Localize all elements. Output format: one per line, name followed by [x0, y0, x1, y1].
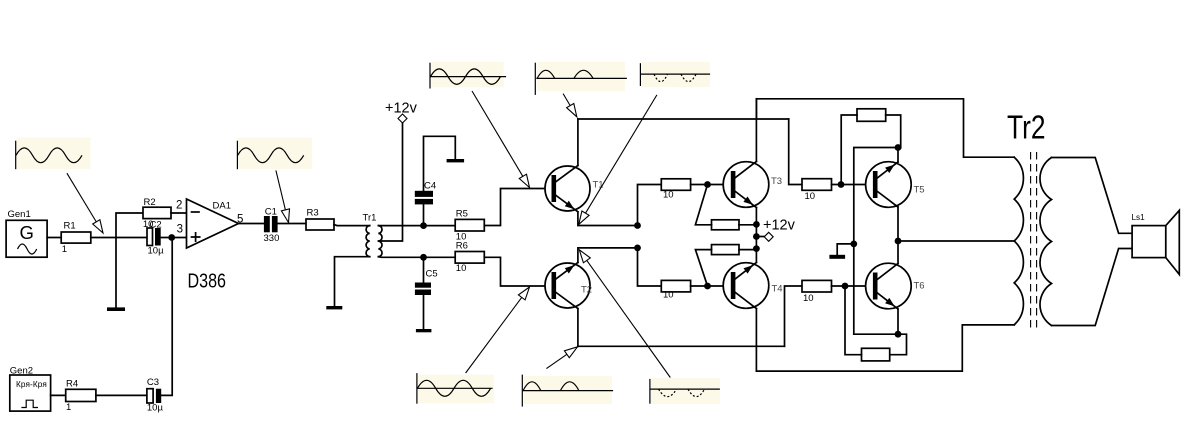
waveform display D sine (bottom left) [417, 373, 494, 404]
wire T3 emitter down [755, 208, 757, 225]
arrow wave-D to T2 base [466, 287, 530, 373]
svg-text:Gen1: Gen1 [8, 209, 31, 220]
wire outer bottom loop to Tr2 primary bottom [756, 325, 1014, 371]
power +12v terminal diamond (output stage) [764, 232, 773, 241]
transistor T6 [866, 263, 925, 309]
svg-text:10: 10 [803, 293, 814, 304]
junction node column mid [753, 233, 760, 240]
wire T6 feed up to T6 base resistor [785, 286, 803, 346]
ground for C5 [416, 329, 432, 332]
wire R1 to C2 (node A) [91, 237, 147, 239]
arrow wave-C to T1 emitter node [579, 95, 657, 224]
generator Gen1 label [8, 209, 31, 220]
junction node T1 emitter [634, 222, 641, 229]
svg-text:C3: C3 [147, 377, 159, 388]
svg-text:+12v: +12v [763, 218, 796, 234]
wire Tr2 secondary bottom to speaker [1052, 249, 1133, 326]
junction node T5 emitter [895, 144, 902, 151]
resistor feedback bottom (T6) [862, 348, 890, 361]
svg-text:C2: C2 [150, 220, 162, 231]
wire T5 emitter node left and down (ground bus) [854, 148, 901, 335]
junction node pin3 [168, 234, 175, 241]
wire C4 to ground [424, 136, 456, 191]
power +12v terminal diamond (Tr1) [398, 114, 407, 123]
svg-text:330: 330 [264, 233, 280, 244]
power +12v label (output stage) [763, 218, 796, 234]
svg-text:2: 2 [176, 200, 182, 212]
wire Tr1 primary bottom to ground [335, 257, 370, 307]
svg-text:T2: T2 [581, 285, 592, 296]
svg-text:R6: R6 [456, 241, 468, 252]
svg-text:DA1: DA1 [213, 200, 231, 211]
wire R4 to C3 [96, 394, 147, 396]
waveform display B half-wave (top middle) [535, 62, 627, 95]
wire outer top loop to Tr2 primary top [756, 99, 1014, 157]
wire R2 to op-amp pin2 [171, 212, 187, 214]
svg-text:C1: C1 [265, 206, 277, 217]
svg-text:1: 1 [66, 402, 71, 413]
transformer Tr1 label [363, 213, 377, 224]
wire C1 to R3 [278, 223, 306, 225]
wire T2 collector down to bottom rail [577, 309, 579, 347]
waveform display A sine (top left) [430, 62, 506, 89]
wire T3 collector up to rail and outer top [755, 99, 757, 162]
wire C5 to ground [423, 295, 425, 329]
resistor R6 [455, 241, 484, 275]
resistor bias upper (T3) [712, 220, 740, 230]
wire node down to C5 [423, 257, 425, 282]
transistor T2 [545, 263, 592, 309]
wire R3 to Tr1 primary [334, 225, 370, 226]
wire stub to ground [837, 244, 854, 255]
wire R6 to T2 base [484, 257, 551, 286]
wire resistor to T3 base node [691, 184, 731, 186]
wire Tr1 secondary top to R5 row [378, 225, 455, 227]
speaker Ls1 [1132, 210, 1179, 274]
waveform display sine (near op-amp out) [237, 138, 312, 170]
wire resistor to T6 base node [832, 285, 873, 287]
ground below Tr1 [326, 306, 342, 309]
junction node T4 base [704, 283, 711, 290]
wire bias upper right to +12v column [739, 224, 756, 226]
wire bias upper left diagonal to T3 base [695, 185, 711, 225]
wire node A up to R2 row [116, 213, 143, 238]
svg-text:Кря-Кря: Кря-Кря [16, 380, 47, 389]
svg-text:Tr1: Tr1 [363, 213, 377, 224]
junction node T6 emitter [895, 331, 902, 338]
wire feedback top right lead to T5 emitter node [886, 115, 901, 148]
resistor feedback top (T5) [857, 109, 886, 122]
wire T1 emitter to node [578, 212, 638, 226]
wire +12v column T3-T4 [755, 224, 757, 248]
wire bias lower right to +12v column [739, 249, 756, 251]
arrow wave-opamp to C1-R3 wire [276, 170, 290, 222]
wire T5 emitter up to node [897, 148, 899, 163]
wire T4 collector down to outer bottom [755, 309, 757, 372]
transistor T3 [723, 162, 782, 208]
wire pin3 node down to C3 row [161, 238, 172, 396]
junction node T3 base [704, 181, 711, 188]
wire rail down to T5 base resistor [789, 119, 802, 185]
svg-text:1: 1 [62, 244, 67, 255]
svg-text:+12v: +12v [385, 101, 418, 117]
svg-text:10: 10 [663, 290, 674, 301]
svg-text:R1: R1 [64, 221, 76, 232]
junction node secondary bottom / C5 [420, 254, 427, 261]
resistor 10 (T6 base) [802, 280, 832, 304]
waveform display E half-wave (bottom middle) [522, 375, 613, 407]
waveform display sine (near Gen1) [16, 138, 91, 170]
pin 2 label [176, 200, 182, 212]
svg-text:D386: D386 [188, 270, 227, 293]
wire Gen2 to R4 [51, 394, 66, 396]
svg-text:T5: T5 [914, 185, 925, 196]
generator Gen2 label [10, 365, 33, 376]
transistor T5 [866, 162, 925, 208]
junction node T6 base [842, 283, 849, 290]
junction node secondary top / C4 [420, 222, 427, 229]
wire T4 emitter up [755, 249, 757, 263]
junction node column upper [753, 221, 760, 228]
junction node T5 base [838, 181, 845, 188]
wire T5 collector down to output node [897, 207, 899, 241]
resistor R5 [455, 208, 484, 242]
wire bias lower left diagonal to T4 base [695, 250, 711, 286]
svg-text:3: 3 [177, 224, 183, 236]
capacitor C2 (polarized 10u) [147, 220, 164, 257]
capacitor C1 (330) [264, 206, 280, 244]
arrow wave-Gen1 to R1 node [67, 173, 103, 233]
resistor 10 (T4 base) [661, 280, 690, 300]
transformer Tr1 secondary winding [378, 226, 382, 257]
arrow wave-A to T1 base [472, 91, 530, 188]
svg-text:T3: T3 [771, 176, 782, 187]
transformer Tr1 primary winding [366, 226, 370, 257]
wire T6 collector up to output node [897, 241, 899, 264]
wire T1 collector up to rail [577, 119, 579, 166]
power +12v label (Tr1) [385, 101, 418, 117]
wire T1 node jog to T3 base resistor [638, 185, 662, 226]
svg-text:C4: C4 [424, 180, 436, 191]
wire feedback bottom left lead to T6 base [845, 286, 862, 355]
junction node T2 emitter [634, 245, 641, 252]
waveform display C negative half-wave dotted (top right) [640, 62, 710, 87]
svg-text:R5: R5 [456, 208, 468, 219]
capacitor C5 [415, 269, 438, 296]
wire node up to C4 [423, 204, 425, 225]
generator Gen1 box [6, 220, 47, 257]
wire T2 emitter to node [578, 248, 638, 263]
svg-text:C5: C5 [426, 269, 438, 280]
wire bottom rail T2 collector to T6 feed [578, 345, 785, 347]
svg-text:R2: R2 [144, 197, 156, 208]
ground below node A [107, 307, 125, 311]
wire +12v to Tr1 secondary center tap [378, 123, 402, 241]
pin 3 label [177, 224, 183, 236]
resistor 10 (T3 base) [661, 179, 690, 201]
transformer Tr2 core [1031, 152, 1037, 331]
svg-text:T4: T4 [772, 284, 783, 295]
arrow wave-B to T1 collector [563, 94, 577, 117]
wire Gen1 to R1 [47, 237, 61, 239]
wire Tr1 secondary bottom to R6 row [378, 256, 455, 259]
junction node ground bus [850, 241, 857, 248]
pin 5 label [237, 214, 243, 226]
svg-text:10µ: 10µ [148, 245, 165, 256]
junction node output (Tr2 center tap) [895, 238, 902, 245]
resistor R1 [61, 221, 91, 256]
svg-text:Ls1: Ls1 [1132, 213, 1146, 222]
capacitor C4 [415, 180, 436, 204]
svg-text:10: 10 [805, 191, 816, 202]
resistor bias lower (T4) [712, 245, 740, 255]
speaker Ls1 label [1132, 213, 1146, 222]
generator Gen2 box (Krya-Krya) [10, 375, 51, 411]
wire T6 emitter down to node [897, 309, 899, 334]
wire output node to Tr2 primary center tap [898, 240, 1014, 242]
ground for C4 [447, 159, 465, 162]
wire resistor to T5 base node [832, 184, 873, 186]
resistor 10 (T5 base) [802, 179, 832, 202]
arrow wave-F to T2 emitter node [579, 250, 670, 378]
waveform display F negative half-wave dotted (bottom right) [650, 378, 720, 404]
capacitor C3 (polarized 10u) [147, 377, 164, 413]
wire op-amp out to C1 [239, 223, 264, 225]
wire stub to diamond [756, 236, 764, 238]
svg-text:Tr2: Tr2 [1007, 110, 1046, 147]
svg-text:10: 10 [456, 263, 467, 274]
wire resistor to T4 base node [691, 285, 731, 287]
wire feedback top left lead to T5 base [841, 115, 857, 185]
wire node A down to ground [115, 238, 117, 309]
transformer Tr2 secondary winding [1040, 158, 1052, 326]
resistor R3 [306, 208, 334, 231]
transistor T4 [723, 263, 782, 309]
transformer Tr2 label [1007, 110, 1046, 147]
svg-text:G: G [20, 222, 34, 243]
svg-text:10: 10 [663, 189, 674, 200]
wire T6 emitter node to feedback bottom right lead [854, 334, 907, 355]
svg-text:R3: R3 [307, 208, 319, 219]
op-amp DA1 (D386) [187, 199, 239, 248]
svg-text:T6: T6 [914, 281, 925, 292]
wire Tr2 secondary top to speaker [1052, 158, 1133, 234]
resistor R4 [66, 379, 96, 413]
wire C2 to op-amp pin3 [161, 237, 187, 239]
transformer Tr2 primary winding [1014, 157, 1023, 325]
junction node column lower [753, 245, 760, 252]
transistor T1 [545, 166, 604, 212]
resistor R2 [143, 197, 171, 230]
label D386 [188, 270, 227, 293]
wire rail T1 collector to T3/T5 feed [578, 118, 789, 120]
wire R5 to T1 base [484, 189, 551, 226]
arrow wave-E to T2 collector node [546, 347, 577, 369]
wire T2 node jog to T4 base resistor [638, 248, 662, 286]
svg-text:10µ: 10µ [147, 403, 164, 414]
ground (output stage) [829, 255, 845, 259]
svg-text:R4: R4 [66, 379, 78, 390]
